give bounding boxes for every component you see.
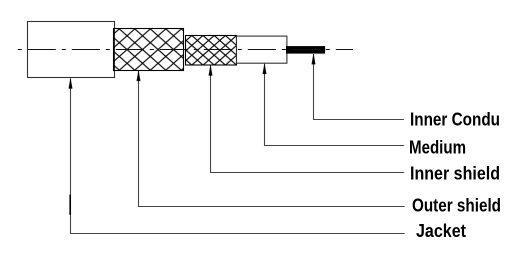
svg-text:Jacket: Jacket	[416, 221, 466, 242]
center line (dash-dot axis)	[18, 49, 353, 51]
svg-text:Inner shield: Inner shield	[410, 163, 500, 184]
leader: jacket	[69, 78, 405, 233]
leader: inner shield	[209, 65, 405, 172]
inner conductor bar	[286, 46, 325, 54]
inner shield box (crosshatched)	[186, 36, 237, 66]
leader: medium	[263, 64, 405, 146]
outer shield box (crosshatched)	[114, 29, 184, 71]
jacket box	[28, 22, 115, 78]
svg-text:Medium: Medium	[409, 137, 466, 158]
medium box	[237, 36, 287, 63]
svg-text:Inner Condu: Inner Condu	[410, 109, 500, 130]
leader: outer shield	[137, 71, 405, 207]
svg-text:Outer shield: Outer shield	[412, 195, 501, 216]
leader: inner conductor	[312, 54, 404, 120]
